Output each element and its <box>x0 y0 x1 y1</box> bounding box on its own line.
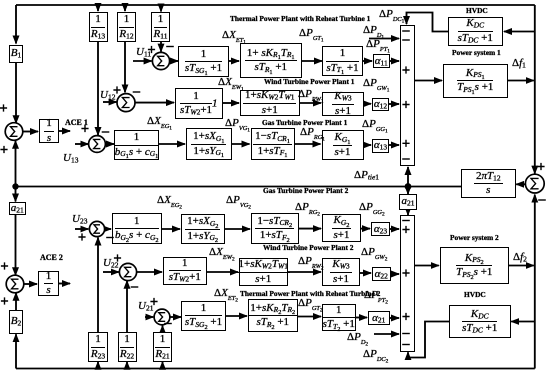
summing junction gas plant 1 summer <box>89 136 106 153</box>
wire: stub R23 <box>97 362 99 369</box>
wire: U13 stub <box>75 143 88 145</box>
wire: down to bottom line <box>534 266 536 369</box>
a13 <box>372 139 389 153</box>
label U11 <box>136 47 151 58</box>
W1a <box>175 88 224 119</box>
wire: dPd1 stub <box>369 38 399 40</box>
wire: bottom line <box>16 368 535 370</box>
wire: rect1 -> KPS1 <box>415 80 442 82</box>
wire: stub R13 <box>97 5 99 11</box>
summing junction wind plant 2 summer <box>119 263 136 280</box>
wire: G2c->G2d <box>299 228 321 230</box>
label ΔXET1 <box>222 30 246 42</box>
wire: U12 stub <box>103 101 117 103</box>
sign + at (406,316.5) <box>402 313 409 320</box>
wire: KDC2 return <box>408 322 449 358</box>
label Δf1 <box>512 58 526 69</box>
sign + at (154,301.5) <box>150 298 157 305</box>
1/R11 <box>151 12 170 42</box>
sign − at (406,220.5) <box>402 220 410 222</box>
label U13 <box>63 153 78 164</box>
wire: right drop to sigma-tie top <box>534 5 536 174</box>
sign − at (168,323.5) <box>164 323 172 325</box>
wire: W2b->W2c <box>288 271 321 273</box>
sign − at (134.5,287) <box>131 286 139 288</box>
label ΔPGG2 <box>359 202 385 214</box>
sign + at (406,273) <box>402 269 409 276</box>
wire: a13->rect1 <box>389 144 399 146</box>
sign − at (110,237.5) <box>106 237 114 239</box>
wire: U11 stub <box>133 60 152 62</box>
wire: Th2c->a21b <box>356 317 367 319</box>
summing junction thermal plant 1 governor summer <box>152 52 169 69</box>
label ΔXEG1 <box>147 116 172 128</box>
1/s ACE2 <box>38 271 59 297</box>
wire: U22 stub <box>103 271 119 273</box>
wire: gas2 sum -> G2a <box>105 228 111 230</box>
wire: G2a->G2b <box>162 228 180 230</box>
sign + at (82,237) <box>78 233 85 240</box>
label ΔPRG2 <box>295 202 320 214</box>
label ΔPGW2 <box>361 247 387 259</box>
label Thermal Power Plant with Reheat Turbine 1 <box>230 15 370 22</box>
label ΔPPT1 <box>366 39 390 51</box>
label ΔXEG2 <box>157 195 182 207</box>
summing junction thermal plant 2 governor summer <box>154 309 170 325</box>
summing rectangle area 1 <box>400 25 415 166</box>
label ΔPGT2 <box>298 298 323 310</box>
wire: T1c->a11 <box>363 60 372 62</box>
1/R23 <box>88 332 108 362</box>
wire: a11->rect1 <box>390 60 399 62</box>
wire: G2d->a23 <box>361 228 370 230</box>
W2b <box>239 258 289 286</box>
label ΔPDC1 <box>379 9 404 21</box>
sign + at (406,143.3) <box>402 140 409 147</box>
a21b <box>368 311 391 325</box>
G1c <box>251 128 295 160</box>
1/R12 <box>117 12 136 42</box>
T1c <box>322 46 363 77</box>
1/R21 <box>153 332 172 362</box>
sign + at (4.5,301) <box>1 297 8 304</box>
summing junction gas plant 2 summer <box>89 221 104 236</box>
sign − at (406,40) <box>402 39 410 41</box>
sign − at (406,344.5) <box>402 344 410 346</box>
W1b <box>240 90 301 116</box>
sign + at (117,90) <box>113 86 120 93</box>
label ΔPGT1 <box>299 28 324 40</box>
wire: right -> KDC2 <box>511 321 535 323</box>
KPS2 <box>440 247 510 284</box>
label Δf2 <box>513 252 527 263</box>
wire: 1/s out (ACE2) <box>59 283 70 285</box>
wire: R11 -> th1 sum <box>160 42 162 52</box>
wire: arrow into a21L (short) <box>15 200 17 203</box>
wire: th2 sum->Th2a <box>170 316 181 318</box>
wire: tie down to a21R <box>407 187 409 195</box>
wire: tie down to a21L <box>15 187 17 202</box>
sign + at (117.5,258) <box>114 254 121 261</box>
wire: sum1 -> 1/s <box>22 131 38 133</box>
W2c <box>322 258 360 286</box>
wire: G1c->G1d <box>295 143 321 145</box>
sign − at (542,200) <box>538 199 546 201</box>
wire: R22 -> wind2 sum <box>126 281 128 332</box>
wire: G2b->G2c <box>225 228 250 230</box>
label HVDC <box>464 291 486 298</box>
sign − at (406,159) <box>402 158 410 160</box>
2piT12 <box>461 169 516 198</box>
wire: G1d->a13 <box>364 144 372 146</box>
a22 <box>372 267 392 281</box>
G2a <box>112 213 163 244</box>
wire: tie line to left <box>16 186 462 188</box>
wire: T1b->T1c <box>302 60 322 62</box>
wire: a21L -> sum2 top <box>15 215 17 276</box>
a23 <box>371 222 390 236</box>
label ACE 1 <box>65 119 88 127</box>
a21 right <box>399 194 417 210</box>
sign + at (541,166.5) <box>537 163 544 170</box>
label ΔPVG2 <box>226 195 251 207</box>
sign + at (406,70) <box>402 66 409 73</box>
KPS1 <box>443 64 509 98</box>
label U22 <box>103 258 118 269</box>
wire: G1b->G1c <box>232 143 250 145</box>
T1b <box>240 43 303 78</box>
node tie-line junction left <box>12 183 18 189</box>
label Power system 2 <box>450 234 499 241</box>
sign + at (3.5,108) <box>0 104 7 111</box>
label ΔXET2 <box>214 288 238 300</box>
label ΔPGW1 <box>363 78 389 90</box>
label Gas Turbine Power Plant 1 <box>262 119 347 126</box>
wire: W1a->W1b <box>223 102 239 104</box>
sign − at (105.5,132) <box>102 131 110 133</box>
label ΔXEW1 <box>218 77 244 89</box>
summing junction ACE1 integrator input summer <box>5 123 23 141</box>
label ΔPD2 <box>347 332 368 344</box>
wire: W2a->W2b <box>207 271 238 273</box>
label U12 <box>100 90 115 101</box>
wire: a22->rect2 <box>391 273 399 275</box>
T1a <box>178 46 229 77</box>
1/R22 <box>118 332 137 362</box>
a12 <box>372 98 389 112</box>
wire: Th2b->Th2c <box>298 316 321 318</box>
summing junction wind plant 1 summer <box>117 94 135 112</box>
wire: tie up to sum1 <box>15 141 17 187</box>
wire: U23 stub <box>75 228 88 230</box>
wire: top line <box>16 4 535 6</box>
label ΔPVG1 <box>225 118 250 130</box>
wire: up to sigma tie bottom <box>534 195 536 266</box>
label Power system 1 <box>452 49 501 56</box>
sign − at (170,46.5) <box>166 46 174 48</box>
label ΔPPT2 <box>364 290 388 302</box>
wire: a21R -> rect2 top <box>407 210 409 216</box>
sign + at (151.5,49.5) <box>148 46 155 53</box>
wire: B1 -> sum1 <box>15 63 17 123</box>
wire: sigma tie -> 2piT block <box>516 183 526 185</box>
wire: a21b->rect2 <box>390 317 399 319</box>
G1d <box>322 130 364 160</box>
1/s ACE1 <box>39 119 59 143</box>
label Thermal Power Plant with Reheat Turbine 2 <box>240 290 380 297</box>
wire: a23->rect2 <box>390 228 399 230</box>
sign − at (406,333.5) <box>402 333 410 335</box>
label ΔPDC2 <box>363 349 388 361</box>
label ΔPRG1 <box>300 127 325 139</box>
KDC2 <box>449 305 511 338</box>
W2a <box>163 257 208 285</box>
label HVDC <box>466 7 488 14</box>
Th2b <box>248 299 299 332</box>
a11 <box>373 54 391 68</box>
label ΔPGG1 <box>362 119 388 131</box>
Th2a <box>181 301 226 331</box>
G2b <box>181 214 226 244</box>
wire: a12->rect1 <box>389 103 399 105</box>
G1b <box>186 128 233 160</box>
sign + at (406,229.5) <box>402 226 409 233</box>
wire: R13 -> gas1 sum <box>97 42 99 136</box>
wire: wind2 sum->W2a <box>137 271 162 273</box>
label ΔPRW2 <box>298 256 324 268</box>
label ΔXEW2 <box>209 247 235 259</box>
wire: KPS1 -> right line <box>508 80 534 82</box>
wire: stub R21 <box>162 362 164 369</box>
wire: gas1 sum->G1a <box>105 143 114 145</box>
label Gas Turbine Power Plant 2 <box>263 187 348 194</box>
label ΔPtie1 <box>354 170 379 181</box>
wire: wind1 sum->W1a <box>135 102 174 104</box>
label U23 <box>72 214 87 225</box>
wire: B2 -> sum2 bottom <box>15 293 17 310</box>
label Wind Turbine Power Plant 1 <box>264 78 355 85</box>
wire: tie -> rect1 bottom <box>407 167 409 187</box>
wire: T1a->T1b <box>229 60 239 62</box>
1/R13 <box>89 12 108 42</box>
rect2 <box>400 215 415 352</box>
summing junction ACE2 integrator input summer <box>6 275 24 293</box>
wire: drop to B1 <box>15 5 17 44</box>
label ΔPRW1 <box>298 89 324 101</box>
wire: rect2 -> KPS2 <box>415 265 439 267</box>
label ACE 2 <box>40 254 63 262</box>
wire: th1 sum -> T1a <box>170 60 178 62</box>
G1a <box>114 130 159 160</box>
wire: W1b->W1c <box>300 102 321 104</box>
summing junction tie-line frequency difference summer <box>525 174 544 193</box>
wire: G1a->G1b <box>159 143 185 145</box>
W1c <box>322 92 364 116</box>
G2c <box>251 213 300 244</box>
sign + at (4,149.5) <box>0 146 7 153</box>
wire: W1c->a12 <box>364 103 371 105</box>
label ΔPD1 <box>363 25 384 37</box>
label Wind Turbine Power Plant 2 <box>263 244 354 251</box>
a21 left <box>9 202 27 215</box>
wire: U21 stub <box>145 316 153 318</box>
wire: riser to B2 <box>15 334 17 368</box>
wire: R23 -> gas2 sum <box>97 238 99 332</box>
wire: R12 -> wind1 sum <box>124 42 126 93</box>
node tie-line junction right <box>405 183 412 190</box>
wire: stub R11 <box>160 5 162 12</box>
sign + at (4.5,266) <box>1 262 8 269</box>
wire: Th2a->Th2b <box>226 315 247 317</box>
sign − at (406,31) <box>402 30 410 32</box>
B2 <box>9 310 23 334</box>
B1 <box>9 45 23 64</box>
wire: R21 -> th2 sum <box>162 326 164 332</box>
wire: KPS2 -> right line <box>509 265 534 267</box>
wire: W2c->a22 <box>360 272 371 274</box>
wire: stub R22 <box>126 362 128 369</box>
wire: dPd2 stub <box>374 333 399 335</box>
sign + at (406,104.5) <box>402 101 409 108</box>
wire: 1/s out (ACE1) <box>59 130 70 132</box>
Th2c <box>322 304 357 332</box>
wire: sum2 -> 1/s <box>23 283 37 285</box>
sign + at (85,128.5) <box>81 125 88 132</box>
KDC1 <box>448 17 503 46</box>
wire: stub R12 <box>124 5 126 11</box>
wire: KDC1 return <box>407 13 449 32</box>
wire: right line -> KDC1 <box>504 31 535 33</box>
sign − at (136.5,92) <box>133 91 141 93</box>
label U21 <box>138 301 153 312</box>
G2d <box>322 214 361 242</box>
